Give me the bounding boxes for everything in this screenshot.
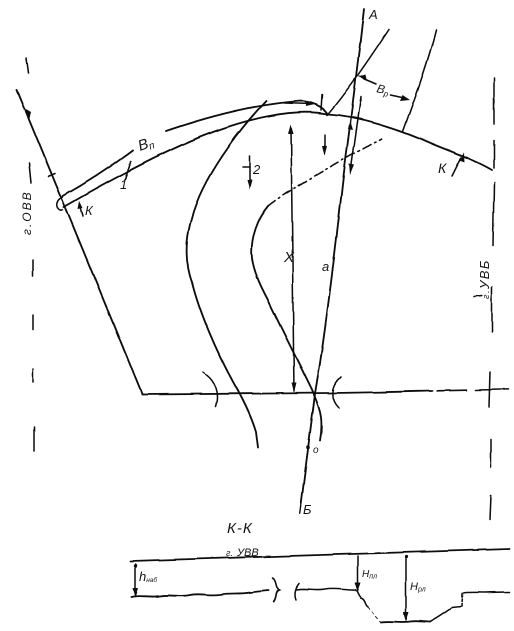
svg-text:Х: Х xyxy=(283,249,295,266)
svg-text:Б: Б xyxy=(303,502,312,517)
svg-text:г.: г. xyxy=(226,548,233,558)
svg-text:Вр: Вр xyxy=(375,81,391,99)
svg-text:К: К xyxy=(85,203,94,218)
svg-text:1: 1 xyxy=(120,177,127,192)
svg-text:К-К: К-К xyxy=(227,520,253,537)
svg-text:К: К xyxy=(438,160,447,176)
svg-text:о: о xyxy=(313,445,319,456)
svg-text:Вп: Вп xyxy=(136,133,157,155)
svg-text:Нпл: Нпл xyxy=(362,569,377,581)
svg-text:а: а xyxy=(322,259,329,274)
svg-text:hнаб: hнаб xyxy=(139,569,157,584)
svg-text:УВВ: УВВ xyxy=(236,547,259,559)
svg-text:г.ОВВ: г.ОВВ xyxy=(20,190,34,235)
svg-text:А: А xyxy=(368,7,378,22)
svg-text:г.УВБ: г.УВБ xyxy=(477,259,492,299)
svg-text:Нрл: Нрл xyxy=(410,581,426,594)
svg-text:2: 2 xyxy=(252,162,261,177)
